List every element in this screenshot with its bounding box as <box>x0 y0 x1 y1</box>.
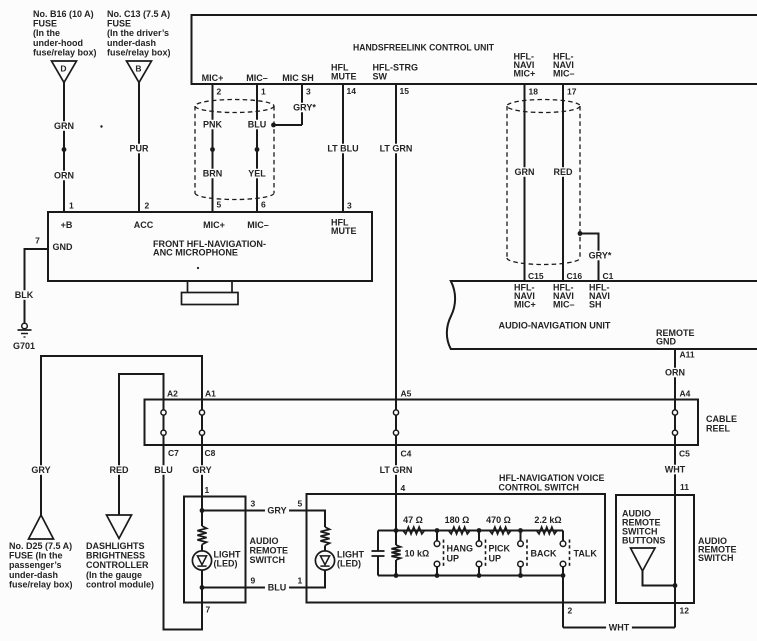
svg-text:3: 3 <box>347 201 352 211</box>
switch BACK <box>518 531 557 576</box>
terminal A4 <box>672 410 677 415</box>
svg-text:2: 2 <box>568 606 573 616</box>
svg-text:MIC+: MIC+ <box>203 220 225 230</box>
HFL pin label MIC SH <box>282 73 314 83</box>
wire resistor to LED <box>201 545 203 552</box>
svg-text:C1: C1 <box>603 271 614 281</box>
mic box pin label ACC <box>134 220 154 230</box>
pin C15 label <box>528 271 544 281</box>
svg-text:A1: A1 <box>205 389 216 399</box>
svg-text:2.2 kΩ: 2.2 kΩ <box>534 515 561 525</box>
switch PICK UP <box>476 531 510 576</box>
svg-text:GRY: GRY <box>31 465 50 475</box>
wire BLU/YEL (MIC-) <box>246 84 267 212</box>
pin 14 HFL MUTE <box>347 86 357 96</box>
svg-text:180 Ω: 180 Ω <box>445 515 470 525</box>
svg-text:GRY*: GRY* <box>589 251 612 261</box>
pin 6 MIC- (bottom) <box>261 200 266 210</box>
front hfl-navigation-anc microphone box <box>48 212 372 281</box>
wire pin1 to LED branch <box>201 497 203 527</box>
terminal A2 <box>161 410 166 415</box>
svg-text:CABLE: CABLE <box>706 414 737 424</box>
pin 3 label <box>251 499 256 509</box>
svg-text:YEL: YEL <box>248 169 266 179</box>
svg-text:SW: SW <box>373 72 388 82</box>
nav pin label HFL-NAVI MIC- <box>553 283 575 310</box>
wire pin 2 (voice switch output) <box>562 576 564 628</box>
LED (left light) <box>192 550 241 571</box>
svg-text:DASHLIGHTS: DASHLIGHTS <box>86 541 145 551</box>
fuse connector triangle (D25) <box>29 515 54 539</box>
mic box pin label +B <box>61 220 73 230</box>
wire pin 11 to pin 12 <box>674 495 676 628</box>
splice on MIC- wire <box>255 147 260 152</box>
pin 2 ACC <box>145 201 150 211</box>
svg-text:MUTE: MUTE <box>331 226 357 236</box>
wire pin4 into box <box>395 494 397 531</box>
svg-text:C16: C16 <box>567 271 583 281</box>
svg-text:BRIGHTNESS: BRIGHTNESS <box>86 551 145 561</box>
svg-text:GRN: GRN <box>54 121 74 131</box>
svg-text:BUTTONS: BUTTONS <box>622 536 665 546</box>
svg-text:SH: SH <box>589 300 602 310</box>
fuse connector B <box>127 61 152 83</box>
LED2 (voice switch light) <box>315 550 364 571</box>
pin A5 label <box>401 389 412 399</box>
pin 17 <box>567 87 577 97</box>
wire LT GRN (C4 to pin 4) <box>378 435 414 531</box>
junction hang-up top <box>435 528 440 533</box>
pin 1 label (audio remote switch) <box>205 485 210 495</box>
speck <box>100 125 102 127</box>
capacitor branch <box>372 531 385 576</box>
svg-text:(LED): (LED) <box>337 559 361 569</box>
svg-text:PNK: PNK <box>203 120 223 130</box>
pin A4 label <box>680 389 691 399</box>
pin 7 GND <box>35 236 40 246</box>
top rail <box>378 530 563 532</box>
svg-text:MIC SH: MIC SH <box>282 73 314 83</box>
pin C16 label <box>567 271 583 281</box>
wire BLU (pin 9 to pin 1) <box>202 583 307 593</box>
svg-text:(In the: (In the <box>33 28 60 38</box>
svg-text:(LED): (LED) <box>214 559 238 569</box>
pin A1 label <box>205 389 216 399</box>
svg-text:MIC–: MIC– <box>553 69 575 79</box>
svg-text:AUDIO: AUDIO <box>250 536 279 546</box>
wire GRN (HFL-NAVI MIC+) <box>514 84 535 281</box>
pin 18 <box>529 87 539 97</box>
resistor (left LED series) <box>197 526 206 545</box>
nav pin label REMOTE GND <box>656 328 695 347</box>
pin C4 label <box>401 449 412 459</box>
mic box pin label MIC- <box>247 220 269 230</box>
svg-text:5: 5 <box>298 499 303 509</box>
junction 10k top <box>394 528 399 533</box>
junction talk bottom <box>561 573 566 578</box>
svg-text:(In the gauge: (In the gauge <box>86 570 142 580</box>
svg-text:BRN: BRN <box>203 169 223 179</box>
pin A2 label <box>167 389 178 399</box>
svg-text:3: 3 <box>306 87 311 97</box>
svg-text:ACC: ACC <box>134 220 154 230</box>
svg-text:HFL-NAVIGATION VOICE: HFL-NAVIGATION VOICE <box>499 473 605 483</box>
handsfreelink control unit box <box>192 15 757 84</box>
wire GRY (fuse D25 to cable reel A1) <box>30 356 202 515</box>
svg-text:C7: C7 <box>168 448 179 458</box>
svg-text:+B: +B <box>61 220 73 230</box>
svg-text:LT BLU: LT BLU <box>327 144 358 154</box>
wire BLU (C7 to pin 7 loop) <box>153 435 202 630</box>
svg-text:WHT: WHT <box>665 465 686 475</box>
dashlights brightness controller label <box>86 541 154 589</box>
junction GRY* to navi shield <box>578 231 583 236</box>
svg-text:BACK: BACK <box>531 549 557 559</box>
svg-text:ORN: ORN <box>54 171 74 181</box>
splice on MIC+ wire <box>210 147 215 152</box>
junction pin1/pin3 <box>200 508 205 513</box>
svg-text:under-hood: under-hood <box>33 38 83 48</box>
terminal C7 <box>161 430 166 435</box>
bottom rail <box>378 575 563 577</box>
svg-text:3: 3 <box>251 499 256 509</box>
svg-text:10 kΩ: 10 kΩ <box>405 549 430 559</box>
svg-text:C5: C5 <box>679 449 690 459</box>
svg-text:G701: G701 <box>13 341 35 351</box>
svg-text:ANC MICROPHONE: ANC MICROPHONE <box>153 248 238 258</box>
pin 12 label <box>680 606 690 616</box>
mic box pin label GND <box>53 242 74 252</box>
cable reel box <box>145 400 738 446</box>
svg-text:UP: UP <box>489 554 502 564</box>
wire resistor2 to LED2 <box>324 546 326 552</box>
svg-text:1: 1 <box>298 576 303 586</box>
svg-text:MIC–: MIC– <box>247 220 269 230</box>
pin 2 MIC+ (top) <box>217 87 222 97</box>
pin C7 label <box>168 448 179 458</box>
pin C8 label <box>205 448 216 458</box>
svg-text:control module): control module) <box>86 579 154 589</box>
audio remote switch box (left) <box>184 497 246 603</box>
terminal A1 <box>199 410 204 415</box>
wire WHT (C5 to pin 11) <box>664 435 687 495</box>
terminal C8 <box>199 430 204 435</box>
HFL pin label HFL-STRG SW <box>373 63 419 82</box>
svg-text:SWITCH: SWITCH <box>250 555 286 565</box>
nav pin label HFL-NAVI MIC+ <box>514 283 536 310</box>
svg-text:GRY: GRY <box>267 506 286 516</box>
HFL pin label MIC+ <box>202 73 224 83</box>
terminal C5 <box>672 430 677 435</box>
pin 15 HFL-STRG SW <box>400 86 410 96</box>
wire GRY (C8 to pin 1) <box>191 435 212 497</box>
junction pin9/pin7 <box>200 585 205 590</box>
wire LT BLU (HFL MUTE) <box>325 84 361 212</box>
svg-text:A5: A5 <box>401 389 412 399</box>
pin 5 label <box>298 499 303 509</box>
wire BLK (ground) <box>13 249 48 323</box>
fuse connector D <box>52 61 77 83</box>
resistor 10 kOhm <box>391 531 429 576</box>
svg-text:BLU: BLU <box>154 465 173 475</box>
svg-text:(In the driver’s: (In the driver’s <box>107 28 169 38</box>
svg-text:MIC+: MIC+ <box>202 73 224 83</box>
buttons triangle <box>631 548 676 586</box>
cable reel wire A2-C7 <box>163 410 165 435</box>
HFL pin label MIC- <box>246 73 268 83</box>
svg-text:4: 4 <box>401 483 406 493</box>
terminal A5 <box>393 410 398 415</box>
svg-text:HANG: HANG <box>447 544 474 554</box>
svg-text:12: 12 <box>680 606 690 616</box>
wire GRN/ORN (+B feed) <box>53 83 74 213</box>
junction back top <box>518 528 523 533</box>
pin C5 label <box>679 449 690 459</box>
ground G701 <box>13 323 35 351</box>
svg-text:TALK: TALK <box>574 549 598 559</box>
svg-text:passenger’s: passenger’s <box>9 560 62 570</box>
junction hang-up bottom <box>435 573 440 578</box>
HFL pin label HFL-NAVI MIC+ <box>514 52 536 79</box>
wire GRY (pin 3 to pin 5) <box>202 506 307 516</box>
resistor (LED2 series) <box>320 527 329 546</box>
pin A11 label <box>680 350 695 360</box>
switch TALK <box>560 531 597 576</box>
HFL pin label HFL MUTE <box>331 63 357 82</box>
svg-text:RED: RED <box>553 167 573 177</box>
svg-text:A11: A11 <box>680 350 695 360</box>
pin 1 label (voice box left) <box>298 576 303 586</box>
svg-text:fuse/relay box): fuse/relay box) <box>9 579 73 589</box>
audio-navigation unit box <box>447 281 757 349</box>
wire RED (dashlights controller to cable reel A2) <box>108 374 163 515</box>
junction pick-up top <box>477 528 482 533</box>
speck <box>197 267 199 269</box>
svg-text:UP: UP <box>447 554 460 564</box>
svg-text:18: 18 <box>529 87 539 97</box>
svg-text:CONTROL SWITCH: CONTROL SWITCH <box>499 483 580 493</box>
svg-text:7: 7 <box>35 236 40 246</box>
junction 10k bottom <box>394 573 399 578</box>
pin 9 label <box>251 576 256 586</box>
switch HANG UP <box>434 531 473 576</box>
svg-text:C4: C4 <box>401 449 412 459</box>
resistor 2.2 kOhm <box>534 515 561 534</box>
pin 1 MIC- (top) <box>261 87 266 97</box>
svg-text:AUDIO-NAVIGATION UNIT: AUDIO-NAVIGATION UNIT <box>499 321 611 331</box>
svg-text:9: 9 <box>251 576 256 586</box>
svg-text:GRN: GRN <box>515 167 535 177</box>
microphone box pedestal <box>182 281 239 305</box>
svg-text:470 Ω: 470 Ω <box>486 515 511 525</box>
svg-text:GRY*: GRY* <box>293 103 316 113</box>
svg-text:2: 2 <box>145 201 150 211</box>
svg-text:MIC+: MIC+ <box>514 300 536 310</box>
splice on GRN/ORN wire <box>62 147 67 152</box>
svg-text:PUR: PUR <box>129 144 149 154</box>
svg-text:GND: GND <box>53 242 74 252</box>
svg-text:under-dash: under-dash <box>107 38 156 48</box>
svg-text:BLU: BLU <box>268 583 287 593</box>
wire ORN (remote gnd to cable reel A4) <box>664 349 685 410</box>
wire WHT (pin 2 to pin 12) <box>563 623 675 633</box>
svg-text:B: B <box>135 64 141 74</box>
svg-text:ORN: ORN <box>665 368 685 378</box>
svg-text:MIC–: MIC– <box>553 300 575 310</box>
pin 2 label <box>568 606 573 616</box>
svg-text:HANDSFREELINK CONTROL UNIT: HANDSFREELINK CONTROL UNIT <box>353 43 494 53</box>
svg-text:15: 15 <box>400 86 410 96</box>
svg-text:17: 17 <box>567 87 577 97</box>
shield around microphone pair (dashed) <box>195 100 274 200</box>
pin 1 +B <box>69 201 74 211</box>
pin 3 HFL MUTE (mic box) <box>347 201 352 211</box>
wire pin5 to LED2 <box>307 511 326 528</box>
junction GRY* to shield <box>271 123 276 128</box>
svg-text:C8: C8 <box>205 448 216 458</box>
resistor 47 Ohm <box>403 515 425 534</box>
fuse no. D25 label <box>9 541 73 589</box>
wire GRY* (navi shield drain) <box>580 234 614 282</box>
svg-text:LT GRN: LT GRN <box>380 144 413 154</box>
wire LED2 to pin 1 <box>307 570 326 588</box>
shield around navi pair (dashed) <box>507 100 580 265</box>
svg-text:REEL: REEL <box>706 424 731 434</box>
audio remote switch buttons box <box>616 495 694 603</box>
svg-text:No. B16 (10 A): No. B16 (10 A) <box>33 9 94 19</box>
audio remote switch label (left) <box>250 536 289 565</box>
svg-text:D: D <box>60 64 66 74</box>
svg-text:REMOTE: REMOTE <box>250 546 289 556</box>
pin 5 MIC+ (bottom) <box>217 200 222 210</box>
junction buttons to pin 12 <box>673 583 678 588</box>
audio-navigation unit title <box>499 321 611 331</box>
HFL pin label HFL-NAVI MIC- <box>553 52 575 79</box>
wire LED to bottom <box>201 570 203 603</box>
nav pin label HFL-NAVI SH <box>589 283 610 310</box>
svg-text:11: 11 <box>680 482 689 492</box>
svg-text:under-dash: under-dash <box>9 570 58 580</box>
svg-text:1: 1 <box>205 485 210 495</box>
svg-text:MUTE: MUTE <box>331 72 357 82</box>
svg-text:MIC–: MIC– <box>246 73 268 83</box>
svg-text:fuse/relay box): fuse/relay box) <box>33 47 97 57</box>
svg-text:FUSE: FUSE <box>107 19 131 29</box>
svg-text:1: 1 <box>69 201 74 211</box>
svg-text:SWITCH: SWITCH <box>698 553 734 563</box>
pin 11 label <box>680 482 689 492</box>
svg-text:FUSE: FUSE <box>33 19 57 29</box>
svg-text:WHT: WHT <box>609 623 630 633</box>
svg-text:7: 7 <box>206 605 211 615</box>
wire PUR (ACC feed) <box>128 83 149 213</box>
junction back bottom <box>518 573 523 578</box>
svg-text:C15: C15 <box>528 271 544 281</box>
svg-text:BLK: BLK <box>15 290 34 300</box>
pin C1 label <box>603 271 614 281</box>
audio remote switch buttons label <box>622 509 665 546</box>
mic box pin label HFL MUTE <box>331 218 357 237</box>
fuse no. B16 label <box>33 9 97 57</box>
svg-text:1: 1 <box>261 87 266 97</box>
resistor 470 Ohm <box>486 515 511 534</box>
svg-text:MIC+: MIC+ <box>514 69 536 79</box>
cable reel wire A5-C4 <box>395 410 397 435</box>
pin 7 label (audio remote switch) <box>206 605 211 615</box>
svg-text:5: 5 <box>217 200 222 210</box>
svg-text:RED: RED <box>109 465 129 475</box>
fuse no. C13 label <box>107 9 171 57</box>
wire LT GRN (HFL-STRG SW to cable reel A5) <box>378 84 414 410</box>
svg-text:GND: GND <box>656 337 677 347</box>
svg-text:PICK: PICK <box>489 544 511 554</box>
svg-text:14: 14 <box>347 86 357 96</box>
wire RED (HFL-NAVI MIC-) <box>552 84 573 281</box>
wire PNK/BRN (MIC+) <box>202 84 223 212</box>
svg-text:No. C13 (7.5 A): No. C13 (7.5 A) <box>107 9 170 19</box>
terminal C4 <box>393 430 398 435</box>
svg-text:A4: A4 <box>680 389 691 399</box>
svg-text:LT GRN: LT GRN <box>380 465 413 475</box>
svg-text:FUSE (In the: FUSE (In the <box>9 551 63 561</box>
cable reel wire A1-C8 <box>201 410 203 435</box>
svg-text:GRY: GRY <box>192 465 211 475</box>
resistor 180 Ohm <box>445 515 470 534</box>
svg-text:6: 6 <box>261 200 266 210</box>
svg-text:fuse/relay box): fuse/relay box) <box>107 47 171 57</box>
wire GRY* (MIC SH shield drain) <box>274 84 319 125</box>
junction pick-up bottom <box>477 573 482 578</box>
pin 4 label (voice control switch) <box>401 483 406 493</box>
audio remote switch label (right) <box>698 536 737 563</box>
svg-text:2: 2 <box>217 87 222 97</box>
svg-text:BLU: BLU <box>248 120 267 130</box>
svg-text:No. D25 (7.5 A): No. D25 (7.5 A) <box>9 541 72 551</box>
hfl-navigation voice control switch box <box>307 473 606 603</box>
svg-text:A2: A2 <box>167 389 178 399</box>
svg-text:CONTROLLER: CONTROLLER <box>86 560 149 570</box>
mic box title <box>153 239 266 258</box>
pin 3 MIC SH <box>306 87 311 97</box>
dashlights controller triangle <box>107 515 132 539</box>
svg-text:47 Ω: 47 Ω <box>403 515 423 525</box>
cable reel wire A4-C5 <box>674 410 676 435</box>
mic box pin label MIC+ <box>203 220 225 230</box>
